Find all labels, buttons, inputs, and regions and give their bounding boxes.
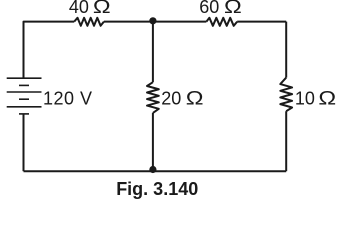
svg-text:20: 20	[161, 89, 181, 109]
battery short plate 3	[19, 113, 29, 115]
wire node A down to resistor R3	[152, 22, 154, 83]
wire R2 to top-right corner	[237, 21, 286, 23]
svg-text:10: 10	[295, 89, 315, 109]
svg-text:Ω: Ω	[93, 0, 111, 17]
wire R3 to node B	[152, 113, 154, 171]
svg-text:Fig. 3.140: Fig. 3.140	[116, 179, 198, 199]
resistor R1 40ohm	[74, 18, 104, 26]
battery long plate 3	[7, 106, 42, 108]
battery long plate 2	[7, 91, 42, 93]
wire R4 to bottom-right corner	[285, 111, 287, 171]
node B junction dot	[149, 166, 156, 173]
wire R1 to node A	[104, 21, 153, 23]
wire node A to resistor R2	[153, 21, 207, 23]
resistor R3 20ohm	[147, 82, 159, 113]
resistor R2 60ohm	[206, 18, 237, 26]
svg-text:Ω: Ω	[318, 87, 336, 109]
svg-text:60: 60	[199, 0, 219, 17]
svg-text:Ω: Ω	[186, 87, 204, 109]
wire battery negative to bottom-left corner	[23, 114, 25, 171]
battery V1 plates	[7, 78, 42, 114]
battery long plate 1	[7, 77, 42, 79]
node A junction dot	[149, 17, 156, 24]
wire bottom	[24, 170, 287, 172]
battery short plate 1	[19, 84, 29, 86]
svg-text:120 V: 120 V	[43, 89, 93, 109]
wire right branch down to resistor R4	[285, 22, 287, 78]
battery short plate 2	[19, 98, 29, 100]
wire battery positive up and right to resistor R1	[24, 22, 75, 78]
resistor R4 10ohm	[280, 78, 292, 112]
svg-text:Ω: Ω	[224, 0, 242, 17]
svg-text:40: 40	[69, 0, 89, 17]
